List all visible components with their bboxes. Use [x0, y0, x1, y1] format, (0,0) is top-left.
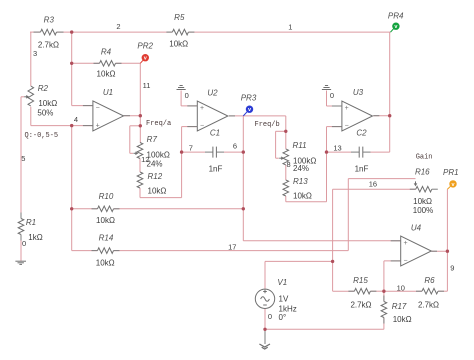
wire net 2 top-left segment	[30, 31, 40, 33]
net label node 2	[116, 22, 120, 31]
junction node 6 C1	[242, 150, 245, 153]
svg-text:Gain: Gain	[416, 153, 433, 161]
net label node 11	[143, 81, 151, 90]
svg-text:1nF: 1nF	[355, 165, 369, 174]
svg-text:10kΩ: 10kΩ	[97, 70, 116, 79]
net label 0 at R1 ground	[22, 239, 26, 248]
value R17 10k	[393, 315, 412, 324]
svg-text:PR4: PR4	[388, 12, 404, 21]
wire C2 row node 13	[327, 151, 390, 153]
label PR2	[137, 42, 153, 51]
junction V1 plus node	[331, 260, 334, 263]
svg-text:2.7kΩ: 2.7kΩ	[38, 41, 59, 50]
svg-text:3: 3	[33, 49, 37, 58]
label R1	[26, 218, 36, 227]
wire V1 negative down	[264, 308, 266, 330]
probe PR3	[243, 106, 253, 116]
potentiometer R11	[279, 149, 288, 165]
label R7	[147, 135, 158, 144]
svg-text:U4: U4	[411, 223, 422, 232]
svg-text:1V: 1V	[279, 295, 289, 304]
svg-text:10kΩ: 10kΩ	[148, 187, 167, 196]
svg-text:V1: V1	[277, 278, 287, 287]
label U4	[411, 223, 422, 232]
svg-text:12: 12	[141, 155, 149, 164]
svg-text:100%: 100%	[413, 206, 433, 215]
net label node 12	[141, 155, 149, 164]
resistor R13	[283, 180, 289, 196]
label PR3	[241, 94, 257, 103]
label R15	[353, 276, 368, 285]
wire R12 bottom hook to node 7	[140, 188, 182, 198]
svg-text:Freq/b: Freq/b	[255, 121, 280, 129]
svg-text:R12: R12	[148, 172, 163, 181]
junction R7 wiper tap	[139, 124, 142, 127]
ground net 0 below R1	[15, 261, 26, 264]
label U1	[103, 88, 113, 97]
value R14 10k	[96, 259, 115, 268]
svg-text:4: 4	[74, 115, 78, 124]
net label node 16	[369, 179, 377, 188]
svg-text:5: 5	[21, 154, 25, 163]
svg-text:PR2: PR2	[137, 42, 153, 51]
value R11 100k	[293, 157, 316, 166]
value R2 10k	[38, 99, 57, 108]
svg-text:−: −	[403, 258, 407, 265]
value R11 24%	[293, 164, 309, 173]
probe PR2	[140, 54, 149, 63]
wire R7 wiper hook	[130, 126, 141, 154]
wire U3 inverting input	[327, 126, 342, 128]
wire R16 left lead rail to V1 net	[333, 189, 416, 291]
value R4 10k	[97, 70, 116, 79]
op-amp U2	[187, 101, 235, 131]
wire net 16 R16 wiper wire	[348, 179, 415, 251]
wire C1 row node 7 to node 6	[182, 151, 244, 153]
net label 0 at U3 ground	[330, 91, 334, 100]
value R10 10k	[96, 216, 115, 225]
svg-text:−: −	[96, 105, 100, 112]
wire net 9 rail (R16 right to R6 right)	[446, 189, 448, 291]
svg-text:9: 9	[450, 264, 454, 273]
svg-text:13: 13	[333, 143, 341, 152]
ground net 0 above U2	[177, 86, 186, 90]
svg-text:+: +	[96, 123, 100, 130]
wire U3 output	[373, 115, 389, 117]
label R14	[99, 234, 114, 243]
svg-text:11: 11	[143, 81, 151, 90]
wire R15 row	[333, 290, 384, 292]
resistor R1	[18, 213, 24, 241]
svg-text:0: 0	[268, 312, 272, 321]
label Freq/a	[146, 120, 171, 128]
net label node 7	[189, 143, 193, 152]
value R5 10k	[169, 40, 188, 49]
wire Freq/b down to R11	[285, 116, 287, 149]
voltage source V1	[255, 289, 274, 308]
wire net 5 R2 wiper rail down to R1	[21, 97, 24, 219]
probe PR4	[391, 23, 400, 33]
svg-text:+: +	[345, 105, 349, 112]
op-amp U4	[391, 236, 437, 266]
label R12	[148, 172, 163, 181]
label R10	[99, 192, 114, 201]
potentiometer R7	[133, 143, 142, 159]
wire R17 bottom to V1 ground net	[265, 318, 384, 330]
net label node 3	[33, 49, 37, 58]
junction net 4	[70, 124, 73, 127]
svg-text:C1: C1	[210, 129, 220, 138]
svg-text:R11: R11	[292, 141, 306, 150]
junction R4 row	[70, 62, 73, 65]
svg-text:10kΩ: 10kΩ	[169, 40, 188, 49]
net label 0 at U2 ground	[185, 91, 189, 100]
wire U2 inverting input	[182, 126, 198, 128]
value R16 10k	[413, 197, 432, 206]
svg-text:U3: U3	[353, 88, 364, 97]
value R2 50%	[37, 109, 53, 118]
label R6	[424, 276, 435, 285]
wire net 1 R5-to-PR4 segment	[188, 31, 390, 33]
svg-text:−: −	[345, 123, 349, 130]
svg-text:+: +	[200, 105, 204, 112]
value R7 24%	[147, 159, 163, 168]
net label node 4	[74, 115, 78, 124]
svg-text:24%: 24%	[293, 164, 309, 173]
svg-text:2.7kΩ: 2.7kΩ	[350, 301, 371, 310]
wire U3 non-inverting input from ground	[327, 91, 342, 107]
wire U2 output Freq/b	[229, 115, 286, 117]
resistor R6	[416, 288, 444, 294]
svg-text:2.7kΩ: 2.7kΩ	[418, 301, 439, 310]
op-amp U1	[83, 101, 130, 131]
junction node 7	[180, 150, 183, 153]
svg-text:10kΩ: 10kΩ	[38, 99, 57, 108]
junction V1 minus node	[263, 328, 266, 331]
svg-text:R6: R6	[424, 276, 435, 285]
svg-text:10kΩ: 10kΩ	[413, 197, 432, 206]
label PR4	[388, 12, 404, 21]
svg-text:0: 0	[330, 91, 334, 100]
junction R10 right	[242, 207, 245, 210]
svg-text:+: +	[403, 240, 407, 247]
svg-text:U2: U2	[207, 89, 218, 98]
label U2	[207, 89, 218, 98]
wire net 8 R11-R13 link	[285, 165, 287, 180]
resistor R10	[92, 206, 120, 212]
svg-text:U1: U1	[103, 88, 113, 97]
resistor R12	[137, 172, 143, 188]
svg-text:C2: C2	[356, 129, 367, 138]
wire U2 non-inverting input from ground	[181, 91, 197, 106]
resistor R3	[34, 29, 64, 35]
svg-text:R1: R1	[26, 218, 36, 227]
svg-text:6: 6	[233, 141, 237, 150]
value R15 2.7k	[350, 301, 371, 310]
resistor R5	[166, 29, 194, 35]
value V1 1kHz	[279, 305, 297, 314]
resistor R14	[92, 248, 120, 254]
capacitor C1	[205, 147, 224, 158]
wire net 2 R3-to-R5 segment	[57, 31, 173, 33]
svg-text:R4: R4	[101, 48, 112, 57]
wire R10 row net 4 to net 6	[72, 208, 244, 210]
wire R11 wiper hook	[276, 131, 286, 158]
svg-text:0: 0	[22, 239, 26, 248]
label R16	[415, 168, 430, 177]
wire V1 ground stub	[264, 329, 266, 344]
value C2 1nF	[355, 165, 369, 174]
svg-text:7: 7	[189, 143, 193, 152]
wire net 11 vertical (R4 to R7)	[139, 63, 141, 142]
svg-text:R5: R5	[174, 13, 185, 22]
value R3 2.7k	[38, 41, 59, 50]
svg-text:10: 10	[397, 284, 405, 293]
junction U4 output node 9	[446, 250, 449, 253]
label R11	[292, 141, 306, 150]
ground below V1	[259, 344, 270, 349]
label Freq/b	[255, 121, 280, 129]
svg-text:R7: R7	[147, 135, 158, 144]
svg-text:R14: R14	[99, 234, 114, 243]
wire R6 row net 10	[384, 290, 448, 292]
wire net 7 vertical (U2 inverting to C1/R12)	[181, 127, 183, 198]
value R16 100%	[413, 206, 433, 215]
svg-text:10kΩ: 10kΩ	[96, 216, 115, 225]
value R7 100k	[147, 151, 170, 160]
label Gain	[416, 153, 433, 161]
svg-text:R13: R13	[293, 177, 308, 186]
wire net 17 row (R14 to R16 wiper riser)	[72, 250, 349, 252]
svg-text:R16: R16	[415, 168, 430, 177]
svg-text:−: −	[200, 123, 204, 130]
label R4	[101, 48, 112, 57]
label R2	[38, 84, 49, 93]
probe PR1	[447, 180, 456, 189]
net label node 8	[287, 160, 291, 169]
svg-text:50%: 50%	[37, 109, 53, 118]
wire net 3 rail R3/R4 to U1 inverting input	[71, 32, 73, 106]
wire U1 output to node 11	[124, 115, 141, 117]
label V1	[277, 278, 287, 287]
junction net 10	[382, 290, 385, 293]
svg-text:1kΩ: 1kΩ	[28, 233, 42, 242]
value R1 1k	[28, 233, 42, 242]
svg-text:10kΩ: 10kΩ	[293, 191, 312, 200]
wire R4 row (net 3 to node 11)	[72, 62, 141, 64]
value R6 2.7k	[418, 301, 439, 310]
wire U1 inverting input	[72, 105, 93, 107]
wire net 1 vertical (PR4 to U3 out to C2)	[389, 32, 391, 152]
junction U1 output node 11	[139, 114, 142, 117]
wire net 4 (R2 bottom to U1 non-inverting input)	[31, 107, 93, 126]
net label 0 at V1	[268, 312, 272, 321]
label Q:-0,5-5	[25, 132, 59, 140]
label R13	[293, 177, 308, 186]
svg-text:R17: R17	[392, 302, 407, 311]
net label node 10	[397, 284, 405, 293]
label R5	[174, 13, 185, 22]
net label node 13	[333, 143, 341, 152]
svg-text:1: 1	[288, 23, 292, 32]
svg-text:0: 0	[185, 91, 189, 100]
net label node 17	[228, 242, 236, 251]
wire U4 inverting input to net 10	[384, 261, 401, 302]
wire V1 positive to R15/R16 node	[265, 261, 333, 289]
junction R3/R4 net 2	[70, 30, 73, 33]
svg-text:R3: R3	[44, 16, 55, 25]
svg-text:10kΩ: 10kΩ	[96, 259, 115, 268]
wire R13 bottom hook to node 13	[286, 196, 327, 202]
resistor R4	[94, 61, 122, 67]
wire net 13 vertical (U3 inverting to C2/R13)	[326, 127, 328, 202]
net label node 6	[233, 141, 237, 150]
svg-text:8: 8	[287, 160, 291, 169]
svg-text:0°: 0°	[279, 313, 287, 322]
svg-text:R15: R15	[353, 276, 368, 285]
value C1 1nF	[209, 165, 223, 174]
wire net 4 rail down to R10/R14	[71, 126, 73, 251]
label U3	[353, 88, 364, 97]
resistor R17	[381, 296, 387, 324]
potentiometer R2	[24, 86, 33, 106]
svg-text:Freq/a: Freq/a	[146, 120, 171, 128]
svg-text:PR3: PR3	[241, 94, 257, 103]
label R17	[392, 302, 407, 311]
svg-text:100kΩ: 100kΩ	[147, 151, 170, 160]
junction node 13 C2	[325, 150, 328, 153]
net label node 5	[21, 154, 25, 163]
svg-text:R2: R2	[38, 84, 49, 93]
junction R10 left	[70, 207, 73, 210]
svg-text:2: 2	[116, 22, 120, 31]
svg-text:Q:-0,5-5: Q:-0,5-5	[25, 132, 59, 140]
svg-text:PR1: PR1	[443, 168, 459, 177]
op-amp U3	[332, 101, 379, 131]
wire net 3 left rail (R3 to R2 top)	[29, 32, 32, 86]
resistor R15	[348, 288, 376, 294]
potentiometer R16	[410, 181, 438, 192]
value V1 1V	[279, 295, 289, 304]
junction U3 output	[388, 114, 391, 117]
svg-text:10kΩ: 10kΩ	[393, 315, 412, 324]
wire R1 bottom to ground	[20, 235, 22, 261]
value V1 0deg	[279, 313, 287, 322]
label R3	[44, 16, 55, 25]
wire net 12 R7-R12 link	[139, 159, 141, 173]
net label node 9	[450, 264, 454, 273]
wire net 6 rail (U2 out down to U4 + net)	[242, 116, 244, 241]
net label node 1	[288, 23, 292, 32]
label PR1	[443, 168, 459, 177]
value R12 10k	[148, 187, 167, 196]
svg-text:R10: R10	[99, 192, 114, 201]
label C2	[356, 129, 367, 138]
svg-text:17: 17	[228, 242, 236, 251]
svg-text:1nF: 1nF	[209, 165, 223, 174]
ground net 0 above U3	[322, 86, 331, 90]
capacitor C2	[351, 147, 371, 158]
wire net 6 to U4 non-inverting input	[243, 240, 400, 242]
wire U4 output net 9	[431, 250, 447, 252]
junction R11 wiper tap	[284, 130, 287, 133]
label C1	[210, 129, 220, 138]
value R13 10k	[293, 191, 312, 200]
svg-text:16: 16	[369, 179, 377, 188]
